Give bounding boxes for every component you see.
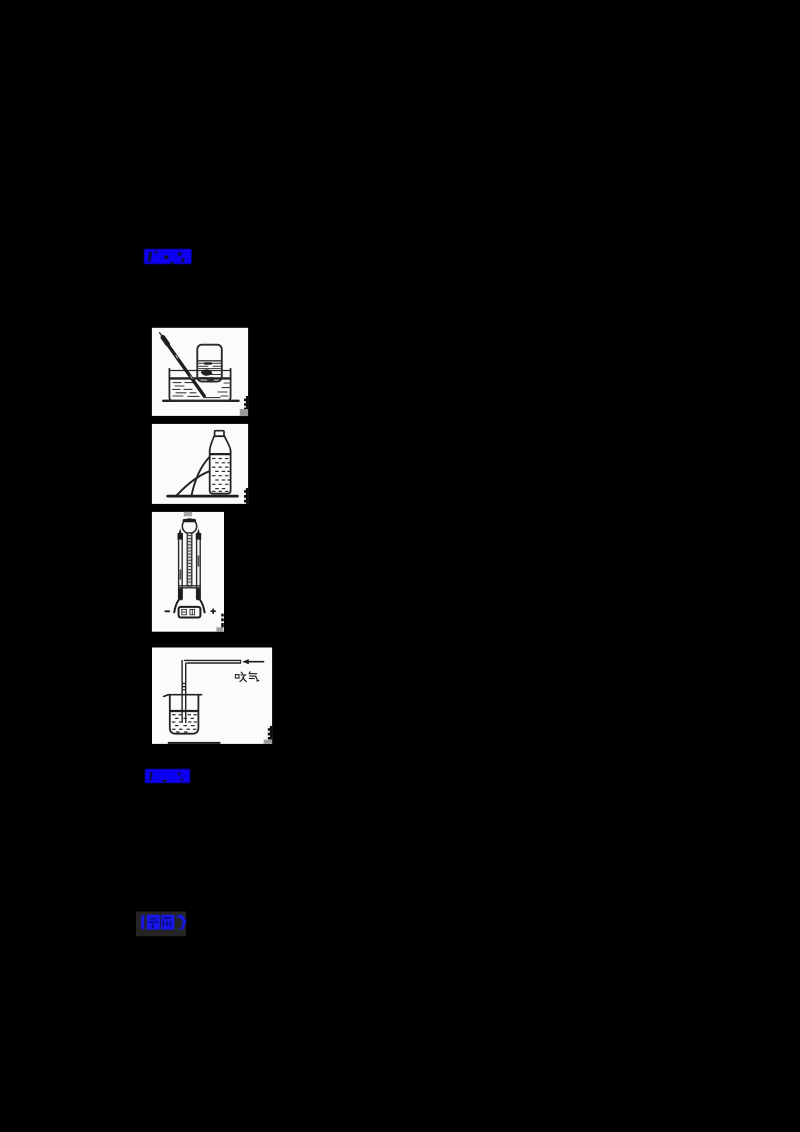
bulb dark cap [184,519,194,522]
answer label [da-an] blue [144,249,192,264]
dark stems below [178,589,182,601]
dark marks where rim crosses bottle [205,362,211,364]
water hatching in trough [173,383,230,398]
left gas tube [178,536,180,599]
horizontal blow tube [184,659,240,661]
beaker body [170,695,199,734]
dropper shaft [165,340,205,396]
right gas tube [196,536,198,599]
right electrode tip [197,528,200,533]
tube graduation marks [183,683,186,684]
beaker rim [164,695,202,697]
liquid scale texture [213,459,230,492]
water trough [169,369,230,401]
electrolyzer bulb [182,519,196,533]
watermark glyph fragment at right edge of A [244,396,248,410]
bottle cap [215,431,224,436]
white figure box C [152,512,224,632]
dropper thin tip [160,333,164,338]
left electrode tip [179,528,182,533]
minus terminal label [165,610,169,612]
leaning rod shallow arc [177,471,210,495]
table line D [169,742,220,744]
gray watermark square C bottom [216,627,223,631]
blow arrow [248,661,264,663]
water texture in beaker [172,715,196,732]
white figure box A [152,328,248,416]
chui-qi text [235,672,259,682]
key-point label [dian-jing] blue [141,915,186,930]
battery label marks [182,609,195,614]
bottom connector [179,585,201,587]
bottle shoulders [210,437,214,451]
dropper bulb [163,337,168,344]
water surface in beaker [170,710,197,712]
explanation label [xiang-jie] blue [145,769,190,783]
gray watermark square A [240,409,248,416]
bottle liquid lines [199,361,221,378]
key-point gray backdrop [136,912,186,937]
trough water surface [170,377,230,379]
central tube [187,533,192,586]
watermark glyph fragment at right edge of D [268,726,272,740]
battery box [179,607,201,618]
gray watermark square C top [184,512,192,517]
bottle body [210,451,231,494]
table line B [168,495,238,498]
vertical tube [181,661,183,723]
white figure box B [152,424,248,504]
gas bottle in trough [197,345,222,382]
watermark glyph fragment at right edge of C [221,614,224,628]
white figure box D [152,648,272,744]
dropper glints [176,355,178,358]
dark reaction blob in bottle [201,369,212,376]
leaning rod steep arc [192,457,210,495]
watermark glyph fragment at right edge of B [244,488,248,504]
trough back rim [169,370,230,372]
plus terminal label [211,610,215,612]
liquid marks in side tubes [179,570,181,579]
liquid level line [211,453,230,455]
stand legs [174,600,179,613]
table line under trough A [163,400,238,402]
gray watermark square D [264,740,272,744]
